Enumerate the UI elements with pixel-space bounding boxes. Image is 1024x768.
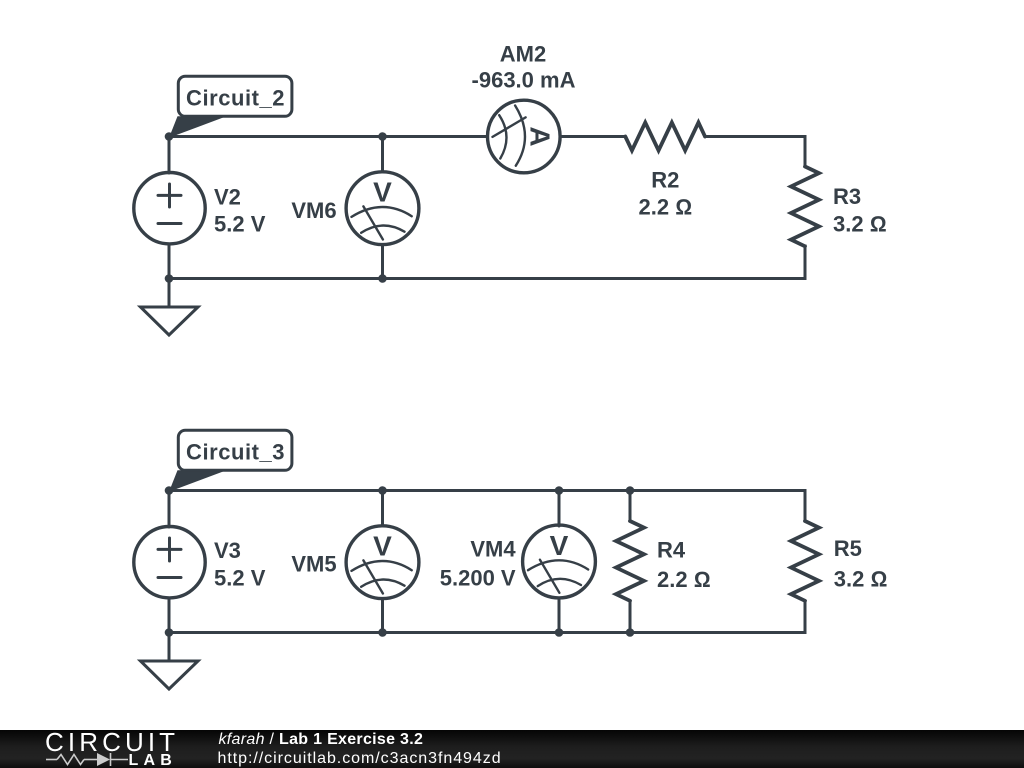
svg-text:V: V	[373, 177, 392, 208]
wire top rail	[169, 489, 805, 492]
voltmeter VM6	[346, 172, 419, 245]
callout Circuit_3	[169, 430, 292, 492]
wire VM5 top lead	[381, 491, 384, 527]
wire V2 top lead	[168, 137, 171, 174]
wire ground stub circuit 3	[168, 633, 171, 662]
logo resistor-diode glyph	[46, 753, 128, 766]
resistor R4	[616, 521, 644, 601]
svg-text:-963.0 mA: -963.0 mA	[472, 67, 576, 92]
voltage source V2	[134, 173, 205, 244]
svg-text:VM4: VM4	[470, 537, 516, 562]
wire V3 top lead	[168, 491, 171, 528]
svg-text:3.2 Ω: 3.2 Ω	[834, 567, 888, 592]
svg-text:5.200 V: 5.200 V	[440, 566, 516, 591]
wire VM4 bottom lead	[558, 599, 561, 633]
wire VM4 top lead	[558, 491, 561, 527]
node dot VM6 bottom	[378, 274, 387, 283]
svg-text:Circuit_2: Circuit_2	[186, 86, 285, 111]
svg-text:V3: V3	[214, 538, 241, 563]
node dot bottom-left circuit 3	[165, 628, 174, 637]
bottom bar background	[0, 730, 1024, 768]
wire R2 to right corner	[705, 135, 805, 138]
svg-text:R3: R3	[833, 184, 861, 209]
node dot VM6 top	[378, 132, 387, 141]
node dot top-left circuit 2	[165, 132, 174, 141]
wire bottom rail	[169, 631, 805, 634]
wire V3 bottom lead	[168, 598, 171, 633]
wire ground stub circuit 2	[168, 279, 171, 308]
svg-text:VM6: VM6	[291, 198, 336, 223]
wire bottom rail	[169, 277, 805, 280]
resistor R3	[791, 167, 819, 247]
voltage source V3	[134, 527, 205, 598]
svg-text:5.2 V: 5.2 V	[214, 566, 266, 591]
node dot VM5 bottom	[378, 628, 387, 637]
wire ammeter to R2	[560, 135, 625, 138]
node dot R4 bottom	[626, 628, 635, 637]
svg-text:V2: V2	[214, 185, 241, 210]
svg-text:R5: R5	[834, 536, 862, 561]
svg-text:Circuit_3: Circuit_3	[186, 440, 285, 465]
svg-text:V: V	[550, 530, 569, 561]
callout Circuit_2	[169, 76, 292, 138]
resistor R2	[625, 123, 705, 151]
ground circuit 3	[141, 661, 199, 689]
wire V2 bottom lead	[168, 244, 171, 279]
svg-text:R2: R2	[651, 167, 679, 192]
ground circuit 2	[141, 307, 199, 335]
node dot VM4 bottom	[555, 628, 564, 637]
svg-text:AM2: AM2	[500, 42, 546, 67]
wire VM6 bottom lead	[381, 245, 384, 279]
wire right edge to R5	[804, 491, 807, 522]
node dot R4 top	[626, 486, 635, 495]
wire right edge top stub to R3	[804, 137, 807, 167]
svg-text:V: V	[373, 531, 392, 562]
voltmeter VM4	[523, 525, 596, 598]
wire R5 to bottom corner	[804, 601, 807, 633]
svg-text:LAB: LAB	[129, 752, 177, 768]
resistor R5	[791, 521, 819, 601]
wire R3 to bottom corner	[804, 246, 807, 279]
svg-text:2.2 Ω: 2.2 Ω	[657, 567, 711, 592]
wire VM6 top lead	[381, 137, 384, 173]
node dot bottom-left circuit 2	[165, 274, 174, 283]
svg-text:R4: R4	[657, 538, 686, 563]
wire VM5 bottom lead	[381, 599, 384, 633]
svg-text:http://circuitlab.com/c3acn3fn: http://circuitlab.com/c3acn3fn494zd	[218, 750, 502, 767]
node dot VM5 top	[378, 486, 387, 495]
voltmeter VM5	[346, 526, 419, 599]
node dot top-left circuit 3	[165, 486, 174, 495]
svg-text:5.2 V: 5.2 V	[214, 212, 266, 237]
svg-text:VM5: VM5	[291, 552, 336, 577]
svg-text:3.2 Ω: 3.2 Ω	[833, 212, 887, 237]
wire top rail left segment	[169, 135, 488, 138]
wire R4 bottom lead	[629, 601, 632, 633]
wire R4 top lead	[629, 491, 632, 522]
svg-text:A: A	[525, 126, 556, 146]
ammeter AM2	[488, 100, 561, 173]
svg-text:kfarah / Lab 1 Exercise 3.2: kfarah / Lab 1 Exercise 3.2	[219, 731, 424, 748]
node dot VM4 top	[555, 486, 564, 495]
svg-text:2.2 Ω: 2.2 Ω	[639, 195, 693, 220]
